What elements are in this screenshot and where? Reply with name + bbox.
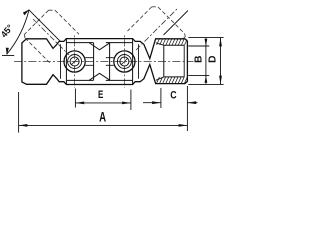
phantom end chamfer top (49, 9, 55, 11)
J1 ear inner edge (65, 39, 67, 85)
right angle side line (164, 11, 189, 36)
sleeve cone lines (156, 43, 164, 81)
joint J1 vertical centerline (74, 35, 76, 88)
main centerline (14, 61, 194, 63)
J1 ear boss edge (60, 44, 62, 79)
D arrow bottom (inside, pointing down) (219, 76, 222, 85)
dimension C line with outside arrows (143, 102, 198, 104)
J1 pin slot (72, 59, 78, 65)
dimension E extension left (74, 89, 76, 108)
dimension E line (75, 102, 130, 104)
phantom sleeve end chamfer top (152, 6, 158, 8)
phantom sleeve end chamfer bottom (184, 34, 187, 37)
C arrow right (187, 101, 196, 104)
waist V-notch bottom (89, 73, 110, 80)
dimension E extension right (130, 90, 132, 111)
J1 cross journal lines (85, 58, 93, 66)
phantom end chamfer bottom (23, 35, 26, 38)
arc arrow top (23, 9, 30, 15)
left angle side line (29, 10, 61, 42)
joint J2 vertical centerline (123, 35, 125, 88)
D arrow top (inside, pointing up) (219, 38, 222, 47)
J2 inner circle (120, 57, 129, 66)
J1 bearing cap lines (66, 43, 93, 81)
A arrow left (19, 124, 28, 127)
E arrow right (122, 102, 131, 105)
svg-text:B: B (193, 56, 204, 63)
dimension A extension right (186, 86, 188, 131)
phantom sleeve rotated axis (136, 8, 178, 50)
link ear edge right (109, 43, 111, 81)
link ear edge left (93, 43, 95, 81)
phantom shaft rotated 45 axis (33, 19, 69, 55)
phantom sleeve bottom edge (183, 37, 185, 39)
J1 outer circle (64, 51, 85, 72)
J2 cup circle (117, 55, 131, 69)
J2 pin slot (121, 59, 127, 65)
dimension D extension top (188, 37, 223, 39)
svg-text:E: E (98, 89, 104, 102)
angle arc (7, 10, 29, 55)
B arrow top (outside, pointing down) (205, 39, 208, 46)
E arrow left (75, 102, 84, 105)
arc arrow bottom (6, 48, 9, 56)
C arrow left (152, 101, 161, 104)
phantom shaft bottom edge (25, 38, 50, 63)
sleeve bore lines (164, 45, 184, 77)
dimension B line (205, 38, 207, 84)
hatch top wall (157, 39, 187, 45)
sleeve right inner chamfer (183, 45, 185, 77)
dimension B extension top (188, 45, 209, 47)
J2 outer circle (114, 51, 135, 72)
J2 bearing cap lines (106, 43, 133, 81)
dimension B extension bottom (188, 75, 209, 77)
part silhouette: shaft, neck, yoke housings, sleeve (22, 39, 188, 85)
phantom sleeve top edge (128, 7, 152, 31)
phantom shaft end face (24, 10, 48, 34)
phantom shaft top edge (55, 10, 79, 34)
sleeve bore left wall (163, 45, 165, 77)
dimension D extension bottom (188, 83, 223, 85)
dimension C extension left (160, 88, 162, 108)
phantom sleeve end face (158, 7, 185, 34)
A arrow right (179, 124, 188, 127)
angle horizontal reference (2, 55, 14, 57)
B arrow bottom (outside, pointing up) (205, 76, 208, 83)
dimension D line (220, 38, 222, 85)
svg-text:C: C (170, 90, 176, 102)
J2 ear boss edge (138, 44, 140, 79)
svg-text:A: A (99, 110, 106, 125)
svg-text:D: D (208, 56, 219, 63)
hatch bottom wall (157, 77, 187, 83)
J2 ear inner edge (132, 39, 134, 85)
waist V-notch top (89, 43, 110, 50)
J1 inner circle (70, 57, 79, 66)
J2 cross journal lines (106, 58, 114, 66)
dimension A line (19, 124, 188, 126)
dimension A extension left (18, 92, 20, 133)
J1 cup circle (68, 55, 82, 69)
